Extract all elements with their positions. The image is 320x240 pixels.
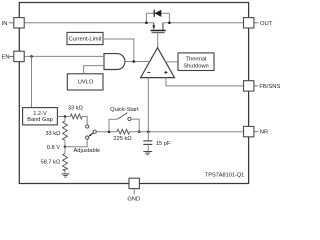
svg-text:1.2-V: 1.2-V <box>33 111 47 117</box>
resistor R3 58.7 kOhm <box>63 147 68 174</box>
wire: enable into amp <box>134 61 151 63</box>
wire: EN to AND gate <box>24 55 104 57</box>
svg-text:Quick-Start: Quick-Start <box>110 107 139 113</box>
svg-text:15 pF: 15 pF <box>156 141 171 147</box>
block: Thermal Shutdown <box>178 53 214 71</box>
resistor R1 33 kOhm (horizontal) <box>70 114 82 119</box>
wire: EN down to band gap <box>31 56 33 107</box>
IC border rectangle <box>19 3 248 184</box>
svg-text:Current-Limit: Current-Limit <box>69 37 102 43</box>
wire: gate to error amp output <box>157 33 159 48</box>
svg-text:33 kΩ: 33 kΩ <box>68 105 83 111</box>
pin GND <box>127 178 140 202</box>
svg-text:33 kΩ: 33 kΩ <box>45 131 60 137</box>
wire: diode top wire <box>146 12 169 14</box>
op-amp U1 (error amplifier) <box>141 48 175 78</box>
switch SW1 (fixed/adjustable selector) <box>86 125 97 139</box>
pin NR <box>244 126 269 136</box>
AND gate U2 <box>104 54 125 70</box>
svg-text:OUT: OUT <box>260 21 273 27</box>
wire: band gap output <box>57 116 70 118</box>
node: 0.8 V tap <box>64 146 67 149</box>
svg-text:TPS7A8101-Q1: TPS7A8101-Q1 <box>205 172 245 178</box>
svg-text:FB/SNS: FB/SNS <box>259 84 280 90</box>
wire: UVLO to AND gate <box>84 66 104 74</box>
wire: diode left stub <box>145 13 147 22</box>
pin EN <box>2 51 25 61</box>
svg-text:Adjustable: Adjustable <box>74 148 101 154</box>
wire: switch common to FB line <box>96 131 117 133</box>
wire: FB line to NR pin <box>130 131 244 133</box>
node: rail right junction <box>168 22 171 25</box>
resistor R4 225 kOhm <box>117 129 130 134</box>
svg-text:Thermal: Thermal <box>186 56 207 62</box>
transistor Q1 (PMOS pass FET) <box>151 23 166 33</box>
node: NR / cap junction <box>147 130 150 133</box>
block: 1.2-V Band Gap <box>23 108 58 125</box>
wire: R1 to fixed contact <box>82 117 87 125</box>
svg-text:0.8 V: 0.8 V <box>47 145 60 151</box>
svg-text:IN: IN <box>2 21 8 27</box>
wire: amp non-inverting input to FB/SNS <box>166 78 244 86</box>
wire: amp to thermal shutdown <box>165 61 178 63</box>
wire: FET drain to OUT rail <box>163 22 244 24</box>
ground (below C1) <box>144 152 153 155</box>
pin OUT <box>244 18 273 28</box>
svg-text:58.7 kΩ: 58.7 kΩ <box>40 160 60 166</box>
svg-text:UVLO: UVLO <box>78 80 94 86</box>
node: rail left junction <box>145 22 148 25</box>
node: amp enable junction <box>133 60 136 63</box>
wire: diode right stub <box>168 13 170 22</box>
resistor R2 33 kOhm (vertical) <box>63 117 68 147</box>
svg-text:NR: NR <box>260 130 268 136</box>
svg-text:GND: GND <box>127 196 140 201</box>
capacitor C1 15 pF <box>143 132 152 152</box>
node: EN junction <box>30 55 33 58</box>
svg-text:Band Gap: Band Gap <box>27 117 53 123</box>
svg-text:225 kΩ: 225 kΩ <box>113 136 131 142</box>
wire: AND output <box>125 61 134 63</box>
pin FB/SNS <box>244 81 281 91</box>
svg-text:Shutdown: Shutdown <box>183 63 208 69</box>
wire: IN rail to FET source <box>24 22 154 24</box>
node: quick-start right junction <box>138 130 141 133</box>
block: Current-Limit <box>67 32 103 44</box>
wire: current-limit output <box>103 39 134 62</box>
body diode D1 <box>154 10 161 17</box>
block: UVLO <box>67 74 103 90</box>
wire: amp inverting input lead <box>147 78 149 132</box>
node: quick-start left junction <box>108 130 111 133</box>
wire: tap to adjustable contact <box>65 139 87 147</box>
pin IN <box>2 18 25 28</box>
ground (below R3) <box>62 174 70 177</box>
switch SW2 Quick-Start <box>109 113 139 132</box>
svg-text:EN: EN <box>2 55 10 61</box>
node: band gap output junction <box>64 115 67 118</box>
